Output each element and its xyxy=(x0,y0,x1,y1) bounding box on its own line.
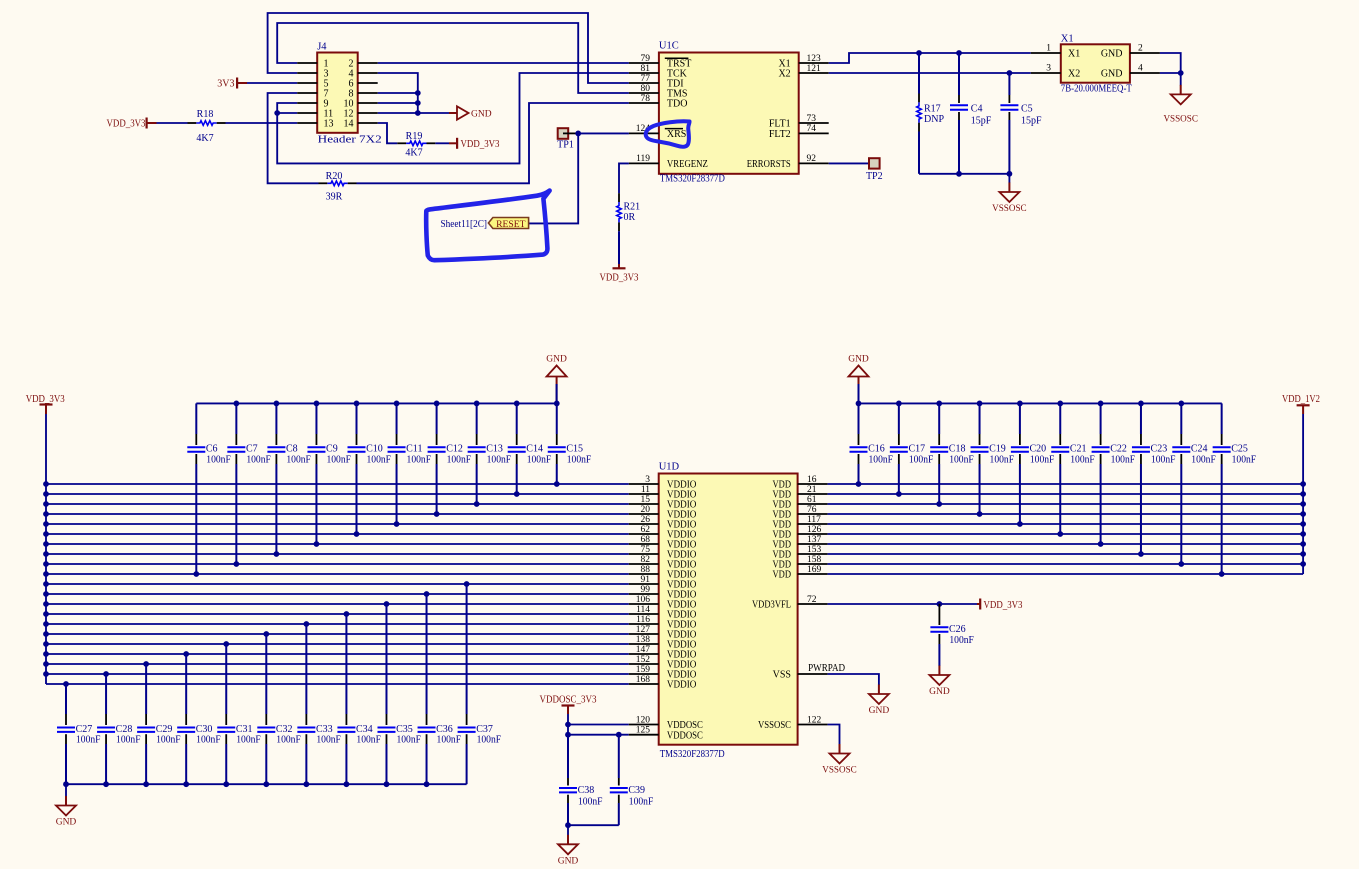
capacitor C39 100nF xyxy=(618,735,620,778)
svg-text:4K7: 4K7 xyxy=(196,133,213,144)
svg-text:11: 11 xyxy=(641,485,650,495)
svg-text:ERRORSTS: ERRORSTS xyxy=(747,159,791,170)
capacitor C7 100nF xyxy=(235,403,237,434)
wire VSS to GND xyxy=(828,674,879,685)
junction C33 gnd bus xyxy=(303,781,309,787)
svg-text:138: 138 xyxy=(636,635,651,645)
svg-text:21: 21 xyxy=(807,485,817,495)
junction C20 tap xyxy=(1017,521,1023,527)
junction VDDIO bus xyxy=(43,641,49,647)
wire VDDIO row pin 20 xyxy=(46,513,629,515)
svg-text:GND: GND xyxy=(471,110,492,120)
U1D pins 120 125 VDDOSC xyxy=(629,724,659,726)
svg-text:C37: C37 xyxy=(476,724,493,735)
junction C18 tap xyxy=(936,501,942,507)
svg-text:U1C: U1C xyxy=(659,41,679,52)
crystal pin 3 X2 xyxy=(1031,72,1061,74)
svg-text:XRS: XRS xyxy=(667,129,686,140)
svg-text:26: 26 xyxy=(641,515,651,525)
svg-text:X2: X2 xyxy=(1068,69,1080,80)
U1D pin 3 VDDIO xyxy=(629,483,659,485)
junction C17 gnd bus xyxy=(896,401,902,407)
svg-text:76: 76 xyxy=(807,505,817,515)
svg-text:100nF: 100nF xyxy=(206,454,231,465)
svg-text:GND: GND xyxy=(546,355,567,365)
junction C9 tap xyxy=(314,541,320,547)
svg-text:4K7: 4K7 xyxy=(405,148,422,159)
wire VDDIO row pin 91 xyxy=(46,583,629,585)
junction VDD bus xyxy=(1300,551,1306,557)
U1D pin 26 VDDIO xyxy=(629,523,659,525)
junction VDDIO bus xyxy=(43,541,49,547)
svg-text:100nF: 100nF xyxy=(356,735,381,746)
wire VDDIO row pin 15 xyxy=(46,503,629,505)
capacitor C4 15pF xyxy=(958,53,960,95)
svg-text:152: 152 xyxy=(636,655,651,665)
svg-text:3V3: 3V3 xyxy=(217,79,234,90)
wire VDDIO row pin 159 xyxy=(46,673,629,675)
svg-text:C18: C18 xyxy=(949,444,966,455)
capacitor C37 100nF xyxy=(466,584,468,714)
svg-text:62: 62 xyxy=(641,525,651,535)
svg-text:100nF: 100nF xyxy=(1151,454,1176,465)
svg-text:C39: C39 xyxy=(628,785,645,796)
junction X1 net at R17 xyxy=(916,50,922,56)
ground GND below PWRPAD xyxy=(878,685,880,695)
svg-text:Header 7X2: Header 7X2 xyxy=(318,135,382,146)
junction VDD bus xyxy=(1300,521,1306,527)
svg-text:100nF: 100nF xyxy=(487,454,512,465)
resistor R19 4K7 xyxy=(406,141,426,146)
wire VDD row pin 153 xyxy=(828,553,1304,555)
svg-text:100nF: 100nF xyxy=(437,735,462,746)
svg-text:88: 88 xyxy=(641,565,651,575)
capacitor C19 100nF xyxy=(979,403,981,434)
junction VDD bus xyxy=(1300,541,1306,547)
svg-text:Sheet11[2C]: Sheet11[2C] xyxy=(441,219,488,230)
svg-text:VSS: VSS xyxy=(773,670,791,681)
svg-text:100nF: 100nF xyxy=(276,735,301,746)
svg-text:73: 73 xyxy=(807,114,817,124)
svg-text:15: 15 xyxy=(641,495,651,505)
svg-text:C36: C36 xyxy=(436,724,453,735)
crystal X1 7B-20.000MEEQ-T xyxy=(1061,44,1130,82)
junction VDDIO bus xyxy=(43,521,49,527)
junction VDDOSC pin 120 xyxy=(565,722,571,728)
junction VDD bus xyxy=(1300,511,1306,517)
svg-text:VREGENZ: VREGENZ xyxy=(667,159,708,170)
junction C18 gnd bus xyxy=(936,401,942,407)
junction C31 gnd bus xyxy=(223,781,229,787)
junction C17 tap xyxy=(896,491,902,497)
svg-text:100nF: 100nF xyxy=(196,735,221,746)
ground GND below C27 xyxy=(65,796,67,806)
power port VDD_3V3 right of C26 xyxy=(977,603,980,605)
J4 pin 5 xyxy=(297,82,317,84)
junction C25 tap xyxy=(1219,571,1225,577)
junction C6 tap xyxy=(193,571,199,577)
svg-text:C34: C34 xyxy=(356,724,373,735)
wire down to GND xyxy=(65,784,67,796)
junction VDDIO bus xyxy=(43,651,49,657)
ground GND above C16-C25 bank xyxy=(858,377,860,386)
U1D pin 91 VDDIO xyxy=(629,583,659,585)
U1D pin 152 VDDIO xyxy=(629,663,659,665)
wire GND bus below C27-C37 xyxy=(66,783,467,785)
junction C15 tap xyxy=(554,481,560,487)
junction VDDOSC pin 125 xyxy=(565,732,571,738)
svg-text:100nF: 100nF xyxy=(367,454,392,465)
U1D pin 88 VDDIO xyxy=(629,573,659,575)
svg-text:15pF: 15pF xyxy=(971,115,992,126)
junction X1 net at C4 xyxy=(956,50,962,56)
junction C28 gnd bus xyxy=(103,781,109,787)
svg-text:GND: GND xyxy=(56,818,77,828)
capacitor C24 100nF xyxy=(1180,403,1182,434)
svg-text:125: 125 xyxy=(636,726,651,736)
wire VDDIO row pin 114 xyxy=(46,613,629,615)
svg-text:100nF: 100nF xyxy=(76,735,101,746)
svg-text:R21: R21 xyxy=(624,202,641,213)
junction VDDIO bus xyxy=(43,671,49,677)
testpoint TP2 xyxy=(869,158,880,168)
svg-text:2: 2 xyxy=(1138,44,1143,54)
svg-text:121: 121 xyxy=(807,64,822,74)
wire VDDIO row pin 152 xyxy=(46,663,629,665)
svg-text:X1: X1 xyxy=(1068,49,1080,60)
J4 pin 2 xyxy=(358,62,378,64)
junction VDD bus xyxy=(1300,491,1306,497)
wire RESET port to XRS net xyxy=(529,133,579,223)
svg-text:100nF: 100nF xyxy=(567,454,592,465)
svg-text:VSSOSC: VSSOSC xyxy=(1163,115,1198,125)
svg-text:C11: C11 xyxy=(406,444,422,455)
svg-text:C4: C4 xyxy=(971,103,983,114)
svg-text:VDD_3V3: VDD_3V3 xyxy=(107,119,146,130)
U1D pin 20 VDDIO xyxy=(629,513,659,515)
wire C38 C39 gnd bus xyxy=(568,824,619,826)
U1D pin VSS / PWRPAD xyxy=(798,673,828,675)
junction C15 gnd bus xyxy=(554,401,560,407)
svg-text:100nF: 100nF xyxy=(909,454,934,465)
wire U1C ERRORSTS (pin 92) to TP2 xyxy=(829,162,869,164)
svg-text:119: 119 xyxy=(636,154,650,164)
svg-text:VDDIO: VDDIO xyxy=(667,680,697,691)
wire oscillator ground bus xyxy=(919,173,1009,175)
svg-text:137: 137 xyxy=(807,535,822,545)
svg-text:VSSOSC: VSSOSC xyxy=(758,720,791,731)
junction pin11/TCK xyxy=(274,110,280,116)
svg-text:C16: C16 xyxy=(868,444,885,455)
wire VDD row pin 16 xyxy=(828,483,1304,485)
capacitor C10 100nF xyxy=(356,403,358,434)
svg-text:R20: R20 xyxy=(326,171,343,182)
svg-text:127: 127 xyxy=(636,625,651,635)
wire VDD_1V2 vertical bus xyxy=(1302,414,1304,574)
power port VDD_3V3 right of R19 xyxy=(449,142,457,144)
svg-text:C5: C5 xyxy=(1021,103,1033,114)
svg-text:C8: C8 xyxy=(286,444,298,455)
wire VSSOSC pin to ground xyxy=(828,725,840,745)
junction VDDIO bus xyxy=(43,661,49,667)
svg-text:99: 99 xyxy=(641,585,651,595)
junction C29 tap xyxy=(143,661,149,667)
svg-text:80: 80 xyxy=(641,84,651,94)
svg-text:169: 169 xyxy=(807,565,822,575)
svg-text:100nF: 100nF xyxy=(316,735,341,746)
svg-text:TDO: TDO xyxy=(667,99,688,110)
wire VDD row pin 126 xyxy=(828,533,1304,535)
U1C pin 124 XRS xyxy=(629,132,659,134)
svg-text:100nF: 100nF xyxy=(286,454,311,465)
wire VDD row pin 137 xyxy=(828,543,1304,545)
svg-text:VDDOSC: VDDOSC xyxy=(667,730,703,741)
U1D pin 106 VDDIO xyxy=(629,603,659,605)
annotation freehand circle around XRS xyxy=(646,121,690,147)
svg-text:120: 120 xyxy=(636,715,651,725)
wire J4 pin7 to R20 to U1C TDO (pin 78) xyxy=(268,93,319,183)
junction C31 tap xyxy=(223,641,229,647)
junction VDDIO bus xyxy=(43,591,49,597)
svg-text:C31: C31 xyxy=(236,724,253,735)
junction C12 tap xyxy=(434,511,440,517)
svg-text:100nF: 100nF xyxy=(326,454,351,465)
junction C32 gnd bus xyxy=(263,781,269,787)
wire VDD row pin 76 xyxy=(828,513,1304,515)
svg-text:16: 16 xyxy=(807,475,817,485)
svg-text:106: 106 xyxy=(636,595,651,605)
svg-text:100nF: 100nF xyxy=(477,735,502,746)
U1D pin 137 VDD xyxy=(798,543,828,545)
capacitor C29 100nF xyxy=(145,664,147,714)
svg-text:C10: C10 xyxy=(366,444,383,455)
power port VDD_3V3 below R21 xyxy=(618,264,620,268)
junction C22 gnd bus xyxy=(1098,401,1104,407)
svg-text:100nF: 100nF xyxy=(949,454,974,465)
svg-text:39R: 39R xyxy=(326,192,343,203)
IC U1D TMS320F28377D power section xyxy=(659,474,798,745)
svg-text:VDD: VDD xyxy=(773,570,792,581)
svg-text:GND: GND xyxy=(869,706,890,716)
junction C10 gnd bus xyxy=(354,401,360,407)
svg-text:C6: C6 xyxy=(206,444,218,455)
svg-text:3: 3 xyxy=(1046,64,1051,74)
capacitor C11 100nF xyxy=(396,403,398,434)
crystal pin 4 GND xyxy=(1130,72,1160,74)
wire GND bus above C16-C25 xyxy=(859,402,1222,404)
U1D pin 16 VDD xyxy=(798,483,828,485)
J4 pin 12 xyxy=(358,112,378,114)
junction VDDIO bus xyxy=(43,601,49,607)
svg-text:100nF: 100nF xyxy=(629,797,654,808)
svg-text:4: 4 xyxy=(1138,64,1143,74)
junction C38 gnd xyxy=(565,822,571,828)
wire VDDIO row pin 138 xyxy=(46,643,629,645)
junction VDD3VFL at C26 xyxy=(937,601,943,607)
capacitor C26 100nF xyxy=(938,604,940,625)
junction C28 tap xyxy=(103,671,109,677)
svg-text:78: 78 xyxy=(641,94,651,104)
testpoint TP1 xyxy=(558,128,569,139)
wire VDDOSC rail xyxy=(567,714,569,735)
svg-text:C24: C24 xyxy=(1191,444,1208,455)
wire VDDIO row pin 68 xyxy=(46,543,629,545)
wire TP1 to U1C XRS (pin 124) xyxy=(578,132,629,134)
junction J4-GND net xyxy=(415,90,421,96)
wire VDDIO row pin 62 xyxy=(46,533,629,535)
junction C19 tap xyxy=(977,511,983,517)
ground VSSOSC below C5 xyxy=(1008,183,1010,193)
ground VSSOSC right of crystal xyxy=(1180,85,1182,95)
wire J4 pin3 to U1C TDI (pin 77) xyxy=(268,13,629,83)
U1C pin 73 FLT1 xyxy=(799,122,829,124)
svg-text:VDD_1V2: VDD_1V2 xyxy=(1282,394,1320,405)
capacitor C15 100nF xyxy=(556,403,558,434)
IC U1C TMS320F28377D JTAG section xyxy=(659,53,799,174)
svg-text:100nF: 100nF xyxy=(1232,454,1257,465)
svg-text:VDD_3V3: VDD_3V3 xyxy=(26,394,65,405)
wire U1C X2 (pin 121) to crystal pin 3 xyxy=(829,72,1031,74)
svg-text:VDD_3V3: VDD_3V3 xyxy=(984,600,1023,611)
junction VDD bus xyxy=(1300,501,1306,507)
U1C pin 78 TDO xyxy=(629,102,659,104)
U1D pin 82 VDDIO xyxy=(629,563,659,565)
junction TP1/XRS/RESET xyxy=(575,131,581,137)
junction C21 gnd bus xyxy=(1057,401,1063,407)
junction C7 tap xyxy=(233,561,239,567)
svg-text:7B-20.000MEEQ-T: 7B-20.000MEEQ-T xyxy=(1061,84,1132,95)
junction C23 gnd bus xyxy=(1138,401,1144,407)
svg-text:91: 91 xyxy=(641,575,651,585)
U1C pin 119 VREGENZ xyxy=(629,162,659,164)
U1C pin 123 X1 xyxy=(799,62,829,64)
junction C34 gnd bus xyxy=(344,781,350,787)
svg-text:TMS320F28377D: TMS320F28377D xyxy=(660,174,725,185)
svg-text:J4: J4 xyxy=(317,42,327,53)
junction X2 net at C5 xyxy=(1007,70,1013,76)
junction VDD bus xyxy=(1300,531,1306,537)
capacitor C8 100nF xyxy=(275,403,277,434)
ground GND below C38 xyxy=(567,835,569,845)
capacitor C20 100nF xyxy=(1019,403,1021,434)
junction C30 gnd bus xyxy=(183,781,189,787)
U1D pin 127 VDDIO xyxy=(629,633,659,635)
svg-text:TP1: TP1 xyxy=(557,139,574,150)
U1C pin 92 ERRORSTS xyxy=(799,162,829,164)
svg-text:C12: C12 xyxy=(446,444,463,455)
U1D pin 153 VDD xyxy=(798,553,828,555)
junction C8 tap xyxy=(274,551,280,557)
capacitor C27 100nF xyxy=(65,684,67,714)
U1D pin 138 VDDIO xyxy=(629,643,659,645)
capacitor C25 100nF xyxy=(1221,403,1223,434)
wire VDD row pin 61 xyxy=(828,503,1304,505)
junction C12 gnd bus xyxy=(434,401,440,407)
svg-text:C35: C35 xyxy=(396,724,413,735)
capacitor C14 100nF xyxy=(516,403,518,434)
J4 pin 3 xyxy=(297,72,317,74)
svg-text:RESET: RESET xyxy=(496,219,525,230)
U1D pin 114 VDDIO xyxy=(629,613,659,615)
svg-text:VDD_3V3: VDD_3V3 xyxy=(600,273,639,284)
wire VDDIO row pin 116 xyxy=(46,623,629,625)
junction VDDIO bus xyxy=(43,531,49,537)
junction C36 gnd bus xyxy=(424,781,430,787)
svg-text:153: 153 xyxy=(807,545,822,555)
wire VDDIO row pin 82 xyxy=(46,563,629,565)
wire VDDIO row pin 88 xyxy=(46,573,629,575)
junction VDDIO bus xyxy=(43,621,49,627)
junction VDD bus xyxy=(1300,561,1306,567)
wire VDDIO row pin 106 xyxy=(46,603,629,605)
junction C34 tap xyxy=(344,611,350,617)
junction C14 gnd bus xyxy=(514,401,520,407)
junction C22 tap xyxy=(1098,541,1104,547)
junction C11 gnd bus xyxy=(394,401,400,407)
svg-text:C28: C28 xyxy=(116,724,133,735)
svg-text:TMS320F28377D: TMS320F28377D xyxy=(660,749,725,760)
resistor R20 39R xyxy=(327,181,347,186)
wire 3V3 to J4 pin5 xyxy=(247,82,297,84)
junction VDD bus xyxy=(1300,481,1306,487)
svg-text:GND: GND xyxy=(848,355,869,365)
svg-text:100nF: 100nF xyxy=(578,797,603,808)
junction C8 gnd bus xyxy=(274,401,280,407)
svg-text:TP2: TP2 xyxy=(866,171,883,182)
wire VDDIO row pin 147 xyxy=(46,653,629,655)
svg-text:82: 82 xyxy=(641,555,651,565)
junction crystal gnd xyxy=(1178,70,1184,76)
U1D pin 159 VDDIO xyxy=(629,673,659,675)
wire VDD row pin 158 xyxy=(828,563,1304,565)
svg-text:C26: C26 xyxy=(949,624,966,635)
svg-text:100nF: 100nF xyxy=(407,454,432,465)
U1D pin 68 VDDIO xyxy=(629,543,659,545)
svg-text:C17: C17 xyxy=(908,444,925,455)
U1D pin 15 VDDIO xyxy=(629,503,659,505)
junction C23 tap xyxy=(1138,551,1144,557)
svg-text:FLT1: FLT1 xyxy=(769,119,791,130)
svg-text:100nF: 100nF xyxy=(1111,454,1136,465)
svg-text:C33: C33 xyxy=(316,724,333,735)
wire J4 pins 4,8,10,12 to GND xyxy=(378,73,418,113)
svg-text:126: 126 xyxy=(807,525,822,535)
capacitor C22 100nF xyxy=(1100,403,1102,434)
svg-text:R17: R17 xyxy=(924,103,941,114)
wire VDD row pin 21 xyxy=(828,493,1304,495)
svg-text:C14: C14 xyxy=(526,444,543,455)
U1D pin 116 VDDIO xyxy=(629,623,659,625)
wire VDDIO row pin 26 xyxy=(46,523,629,525)
svg-text:R19: R19 xyxy=(406,131,423,142)
junction VDDIO bus xyxy=(43,511,49,517)
U1D pin 75 VDDIO xyxy=(629,553,659,555)
capacitor C38 100nF xyxy=(567,735,569,778)
capacitor C17 100nF xyxy=(898,403,900,434)
capacitor C34 100nF xyxy=(345,614,347,714)
connector J4 Header 7X2 xyxy=(317,53,358,133)
svg-text:1: 1 xyxy=(1046,44,1051,54)
junction C32 tap xyxy=(263,631,269,637)
ground GND above C6-C15 bank xyxy=(556,377,558,386)
J4 pin 11 xyxy=(297,112,317,114)
capacitor C9 100nF xyxy=(315,403,317,434)
svg-text:72: 72 xyxy=(807,595,817,605)
junction C24 tap xyxy=(1178,561,1184,567)
svg-text:14: 14 xyxy=(344,119,354,130)
wire crystal gnd pins to VSSOSC xyxy=(1160,53,1181,73)
svg-text:114: 114 xyxy=(636,605,650,615)
